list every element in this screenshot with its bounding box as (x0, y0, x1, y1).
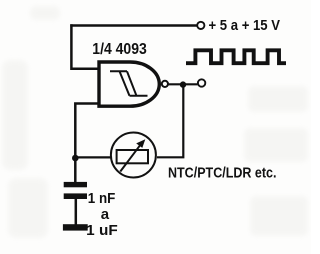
terminal output (198, 79, 205, 86)
svg-text:a: a (101, 206, 110, 223)
svg-text:1 uF: 1 uF (86, 223, 118, 239)
wire bottom gate input feedback (75, 104, 98, 160)
svg-text:1 nF: 1 nF (88, 191, 116, 207)
square wave output symbol (186, 50, 286, 63)
resistor NTC sensor circle (111, 133, 156, 178)
node output junction (180, 81, 186, 87)
svg-text:1/4 4093: 1/4 4093 (92, 41, 147, 58)
node RC junction (72, 155, 79, 162)
wire capacitor to ground (75, 199, 78, 225)
inverter bubble (162, 81, 168, 87)
svg-text:+ 5 a + 15 V: + 5 a + 15 V (209, 18, 281, 34)
wire top supply rail (70, 24, 197, 26)
wire junction to sensor (75, 156, 110, 158)
capacitor C1 plate top (64, 182, 87, 187)
schmitt hysteresis symbol (110, 71, 148, 96)
wire sensor to output node (157, 85, 183, 157)
wire left vertical to top gate input (71, 24, 98, 68)
wire gate output (168, 83, 198, 85)
capacitor C1 plate bottom (64, 193, 87, 199)
arrow of variable resistor (120, 145, 140, 172)
terminal supply (197, 22, 204, 29)
svg-text:NTC/PTC/LDR etc.: NTC/PTC/LDR etc. (168, 165, 277, 181)
NAND gate U1 1/4 4093 body (99, 62, 159, 106)
resistor body (117, 150, 148, 163)
wire junction to capacitor (74, 158, 77, 182)
ground bar (63, 224, 88, 230)
